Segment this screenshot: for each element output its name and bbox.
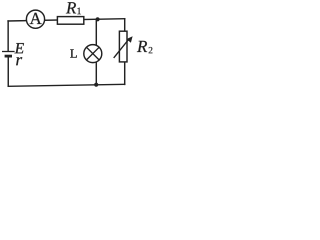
junction dot top of lamp branch [96, 17, 100, 21]
battery long plate [2, 51, 15, 53]
ammeter letter A [30, 13, 42, 24]
wire left rail upper segment [7, 21, 9, 51]
wire top rail [8, 19, 125, 21]
label r [16, 57, 22, 65]
battery short thick plate [5, 55, 12, 58]
label R1 letter R [66, 2, 76, 13]
ammeter circle [26, 10, 44, 28]
label R2 subscript 2 [149, 47, 153, 53]
label R2 letter R [137, 41, 147, 52]
lamp circle [84, 45, 102, 63]
wire left rail lower segment [7, 56, 9, 86]
lamp cross [86, 47, 99, 60]
rheostat R2 box [119, 31, 127, 62]
wire lamp branch [95, 19, 97, 84]
label R1 subscript 1 [77, 8, 81, 15]
rheostat arrow shaft [114, 38, 130, 58]
rheostat arrow head [126, 36, 132, 43]
junction dot bottom of lamp branch [94, 83, 98, 87]
resistor R1 box [57, 17, 83, 25]
wire right branch through R2 [124, 19, 126, 85]
label E [15, 43, 24, 53]
label L [70, 49, 77, 57]
wire bottom rail [8, 84, 124, 86]
